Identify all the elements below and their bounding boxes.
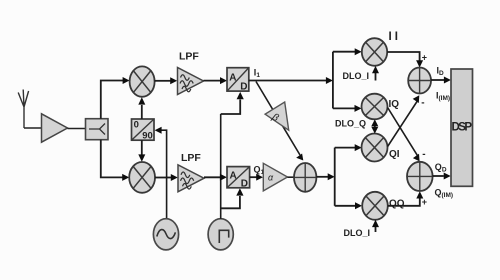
- arrowhead into bottom LPF: [171, 174, 178, 181]
- ADC bottom A/D box: [227, 167, 250, 190]
- svg-text:-: -: [421, 98, 424, 109]
- DSP box: [451, 69, 473, 186]
- LPF top triangle: [178, 68, 204, 95]
- mixer II: [362, 38, 387, 66]
- wire bottom mixer to LPF: [155, 177, 171, 179]
- svg-text:I(IM): I(IM): [436, 91, 450, 103]
- svg-text:DSP: DSP: [452, 122, 473, 134]
- arrowhead into DSP top: [444, 77, 451, 84]
- arrowhead into 0/90 right edge: [155, 127, 162, 134]
- wire splitter to bottom mixer: [101, 140, 123, 178]
- junction vertical Q paths: [334, 148, 336, 206]
- wire IQ diagonal to bottom adder: [388, 108, 418, 156]
- mixer top (RF x LO 0): [130, 66, 155, 96]
- splitter box: [86, 119, 109, 140]
- wire diagonal I to beta to mid adder: [256, 82, 300, 156]
- svg-text:+: +: [422, 197, 427, 207]
- top adder (I out): [408, 68, 431, 94]
- arrowhead into top LPF: [170, 77, 177, 84]
- wire antenna to amplifier: [24, 127, 41, 129]
- svg-text:0: 0: [134, 120, 139, 131]
- wire alpha to mid adder: [288, 176, 295, 178]
- wire I1 to DLO junction: [249, 80, 326, 82]
- svg-text:D: D: [241, 179, 248, 190]
- mixer bottom (RF x LO 90): [129, 162, 155, 193]
- svg-text:LPF: LPF: [179, 51, 199, 63]
- arrowhead at top junction: [326, 77, 333, 84]
- arrows DLO_Q into IQ and QI: [371, 119, 378, 133]
- svg-text:ID: ID: [437, 66, 445, 78]
- svg-text:D: D: [240, 82, 247, 93]
- svg-text:DLO_Q: DLO_Q: [335, 119, 366, 129]
- oscillator (sine LO): [153, 219, 178, 250]
- arrowhead into bottom ADC: [236, 188, 243, 195]
- svg-text:DLO_I: DLO_I: [343, 71, 370, 81]
- mixer QQ: [362, 192, 388, 220]
- svg-text:LPF: LPF: [181, 152, 201, 164]
- arrowhead into top ADC: [237, 92, 244, 99]
- wire oscillator to 0/90 box: [161, 130, 167, 219]
- svg-text:I1: I1: [254, 68, 261, 80]
- arrowhead into top mixer: [123, 77, 130, 84]
- LPF bottom triangle: [178, 165, 204, 192]
- wire junction to QI mixer: [335, 147, 355, 149]
- svg-text:IQ: IQ: [389, 99, 400, 110]
- amplifier beta (rotated): [265, 102, 289, 130]
- arrowhead into bottom ADC: [220, 174, 227, 181]
- wire II to top adder: [387, 52, 419, 61]
- clock branch to bottom ADC: [221, 196, 240, 208]
- wire 0/90 down to bottom mixer: [141, 140, 143, 154]
- svg-text:+: +: [422, 53, 427, 63]
- svg-text:QD: QD: [435, 162, 447, 174]
- wire junction to IQ mixer: [333, 107, 355, 109]
- mixer IQ: [362, 94, 388, 120]
- arrowhead into mid adder top: [296, 154, 303, 161]
- arrow DLO_I into QQ: [372, 220, 379, 232]
- arrow DLO_I into II: [372, 66, 379, 81]
- arrowhead into bottom mixer: [122, 174, 129, 181]
- wire QI diagonal to top adder: [388, 102, 417, 147]
- wire junction to QQ mixer: [335, 205, 356, 207]
- arrowhead into QQ: [355, 202, 362, 209]
- ADC top A/D box: [227, 68, 249, 93]
- arrowhead into top adder: [416, 60, 423, 67]
- junction vertical I paths: [332, 52, 334, 109]
- svg-text:DLO_I: DLO_I: [344, 228, 371, 238]
- wire bottom ADC to alpha: [250, 176, 257, 178]
- svg-text:α: α: [268, 173, 274, 183]
- arrowhead at bottom junction: [328, 173, 335, 180]
- arrowhead into alpha: [256, 174, 263, 181]
- svg-text:A: A: [230, 171, 237, 182]
- clock wire trunk: [220, 114, 222, 219]
- mixer QI: [362, 134, 388, 162]
- arrowhead into bottom adder top: [413, 154, 420, 162]
- svg-text:-: -: [422, 149, 425, 160]
- svg-text:90: 90: [142, 130, 153, 141]
- clock source circle: [208, 219, 233, 250]
- bottom adder (Q out): [407, 162, 433, 191]
- svg-text:II: II: [389, 31, 401, 43]
- wire bottom adder to DSP: [433, 175, 444, 177]
- mid adder (Q path summer): [294, 163, 316, 192]
- svg-text:QI: QI: [389, 149, 400, 160]
- amplifier LNA: [42, 114, 68, 142]
- phase splitter 0/90 box: [132, 119, 155, 141]
- arrowhead down into bottom mixer: [138, 154, 145, 161]
- wire mid adder to bottom junction: [316, 176, 328, 178]
- svg-text:Q(IM): Q(IM): [435, 188, 454, 200]
- arrowhead into bottom adder: [416, 191, 423, 198]
- arrowhead into DSP bottom: [444, 173, 451, 180]
- wire top mixer to LPF: [155, 80, 171, 82]
- arrowhead into top adder bottom: [413, 95, 420, 103]
- arrowhead into top ADC: [220, 77, 227, 84]
- arrowhead into IQ: [355, 105, 362, 112]
- arrowhead into II: [355, 48, 362, 55]
- wire junction to II mixer: [333, 51, 355, 53]
- amplifier alpha: [263, 163, 287, 191]
- arrowhead into QI: [355, 144, 362, 151]
- wire QQ to bottom adder: [388, 199, 420, 206]
- wire top LPF to ADC: [204, 80, 221, 82]
- svg-text:QQ: QQ: [389, 199, 405, 210]
- clock branch to top ADC: [221, 100, 241, 115]
- svg-text:A: A: [229, 73, 236, 84]
- wire amplifier to splitter: [68, 128, 87, 130]
- arrowhead up into top mixer: [138, 97, 145, 104]
- wire bottom LPF to ADC: [204, 176, 220, 178]
- antenna: [18, 90, 28, 129]
- wire splitter to top mixer: [101, 81, 123, 119]
- wire 0/90 up to top mixer: [141, 105, 143, 119]
- wire top adder to DSP: [431, 79, 444, 81]
